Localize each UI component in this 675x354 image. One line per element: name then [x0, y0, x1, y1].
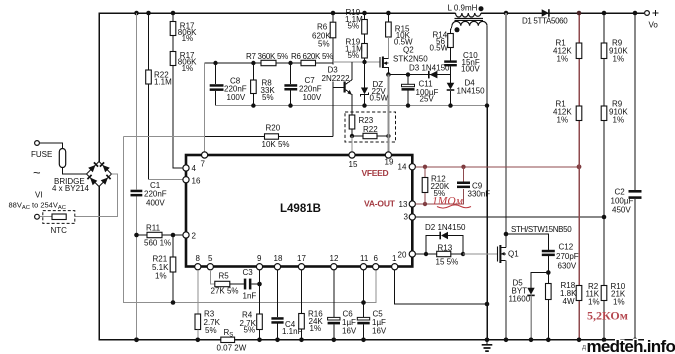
- resistor R21 5.1K 1%: [172, 235, 174, 303]
- svg-text:1%: 1%: [182, 64, 194, 73]
- transistor Q1 STH/STW15NB50: [498, 245, 507, 263]
- svg-text:5%: 5%: [205, 326, 217, 335]
- resistor R5 27K 5%: [215, 281, 230, 286]
- resistor R22 (snubber): [352, 135, 388, 137]
- svg-text:15: 15: [349, 160, 358, 169]
- svg-text:L4981B: L4981B: [280, 203, 321, 215]
- resistor R3 2.7K 5%: [195, 314, 201, 330]
- node rail junctions: [251, 103, 489, 107]
- capacitor C8 220nF 100V: [210, 84, 224, 87]
- svg-text:VA-OUT: VA-OUT: [364, 199, 396, 209]
- svg-text:100µF: 100µF: [611, 197, 634, 206]
- svg-text:1%: 1%: [557, 116, 569, 125]
- wire pin7 lead: [204, 63, 206, 152]
- wire R17 line: [173, 13, 184, 168]
- diode D2 1N4150 loop: [426, 236, 463, 255]
- svg-text:R11: R11: [146, 224, 161, 233]
- svg-text:Vo: Vo: [649, 21, 659, 30]
- transistor D3 2N2222: [333, 62, 352, 106]
- node C11 top: [406, 72, 410, 76]
- wire R15 line: [387, 13, 389, 22]
- wire pin1 to ground line: [395, 270, 487, 304]
- wire pin18 C4 line: [277, 270, 279, 340]
- zener DZ 22V 0.5W: [361, 88, 368, 95]
- svg-text:D3 1N4150: D3 1N4150: [409, 64, 450, 73]
- wire C1 line: [136, 13, 138, 340]
- resistor R6 620K 5% (horizontal): [301, 60, 316, 65]
- svg-text:5%: 5%: [348, 21, 360, 30]
- svg-text:R13: R13: [438, 244, 453, 253]
- resistor R22 1.1M: [146, 70, 152, 84]
- svg-text:400V: 400V: [146, 199, 165, 208]
- svg-text:1%: 1%: [310, 324, 322, 333]
- capacitor C2 100uF 450V: [629, 190, 642, 193]
- svg-text:4 x BY214: 4 x BY214: [52, 184, 89, 193]
- wire C8 branch: [215, 63, 217, 106]
- diode D5 BYT 11600: [531, 273, 548, 288]
- wire R19 zener line x364.5: [364, 13, 366, 106]
- svg-text:R22: R22: [363, 125, 378, 134]
- svg-text:1%: 1%: [613, 54, 625, 63]
- svg-text:270pF: 270pF: [556, 252, 579, 261]
- resistor R7 360K 5%: [261, 60, 276, 65]
- svg-text:0.5W: 0.5W: [430, 44, 449, 53]
- wire R1 R2 red divider x579: [578, 13, 580, 340]
- svg-text:10K 5%: 10K 5%: [262, 140, 290, 149]
- wire pin16 feed: [149, 179, 185, 181]
- svg-text:STH/STW15NB50: STH/STW15NB50: [511, 225, 572, 234]
- svg-text:19: 19: [385, 158, 394, 167]
- svg-text:5%: 5%: [348, 51, 360, 60]
- capacitor C3 1nF: [230, 283, 260, 285]
- svg-text:L 0.9mH: L 0.9mH: [448, 4, 478, 13]
- svg-text:4: 4: [192, 164, 197, 173]
- wire R9 R10 divider x604: [603, 13, 605, 340]
- label D3 2N2222: [321, 65, 350, 83]
- wire bridge right vertex to NTC: [75, 174, 118, 217]
- svg-text:1nF: 1nF: [243, 292, 257, 301]
- wire pin3 line: [415, 216, 604, 218]
- resistor R11 560 1%: [137, 234, 184, 236]
- resistor R9 910K 1% (upper): [601, 43, 607, 59]
- wire signal ground rail y105.6: [216, 105, 488, 107]
- resistor R8 33K 5%: [252, 63, 254, 106]
- svg-text:VI: VI: [35, 191, 43, 200]
- svg-text:17: 17: [297, 254, 306, 263]
- svg-text:D1 5TTA5060: D1 5TTA5060: [522, 17, 568, 26]
- wire pin14 VFEED red line: [415, 166, 579, 168]
- svg-text:FUSE: FUSE: [31, 150, 52, 159]
- svg-text:R6 620K 5%: R6 620K 5%: [291, 52, 333, 61]
- resistor R20 10K 5%: [265, 134, 279, 139]
- svg-text:13: 13: [399, 200, 408, 209]
- svg-text:C12: C12: [559, 243, 574, 252]
- svg-text:5%: 5%: [318, 40, 330, 49]
- transistor Q2 STK2N50: [380, 57, 388, 75]
- wire to fuse: [39, 143, 62, 149]
- pin circles right: [409, 164, 415, 170]
- node D5 R18 junction: [546, 270, 551, 275]
- svg-text:5: 5: [208, 254, 213, 263]
- svg-text:20: 20: [398, 251, 407, 260]
- pin numbers: [192, 158, 409, 264]
- resistor R19 1.1M 5% (lower): [362, 44, 368, 59]
- svg-text:5,2КОм: 5,2КОм: [587, 309, 628, 323]
- resistor R19 1.1M 5% (upper): [362, 20, 368, 35]
- svg-text:R23: R23: [359, 116, 374, 125]
- svg-text:C3: C3: [243, 268, 254, 277]
- wire net A (pins 11/6 return): [124, 137, 377, 303]
- wire C12 branch: [506, 234, 548, 284]
- svg-text:~: ~: [33, 165, 41, 180]
- svg-text:R5: R5: [219, 272, 230, 281]
- svg-text:16V: 16V: [372, 327, 387, 336]
- svg-text:11600: 11600: [509, 295, 531, 304]
- resistor R9 910K 1% (lower): [601, 106, 607, 121]
- node R22 ends: [350, 134, 391, 138]
- svg-text:1%: 1%: [613, 116, 625, 125]
- svg-text:630V: 630V: [558, 262, 577, 271]
- wire pin8 R3 line: [197, 270, 199, 314]
- node red junctions: [423, 164, 582, 206]
- svg-text:100V: 100V: [303, 93, 322, 102]
- svg-text:3: 3: [404, 213, 409, 222]
- capacitor C11 100uF 25V: [407, 75, 409, 106]
- svg-text:2N2222: 2N2222: [322, 74, 351, 83]
- svg-text:6: 6: [374, 254, 379, 263]
- diode D3 1N4150: [428, 71, 430, 79]
- svg-text:450V: 450V: [612, 206, 631, 215]
- capacitor C1 220nF 400V: [131, 190, 143, 193]
- node y63 junctions: [213, 61, 292, 65]
- resistor R10 21K 1%: [601, 286, 607, 301]
- resistor R4 2.7K 5%: [257, 314, 263, 330]
- resistor Rs 0.07 2W (shunt): [221, 337, 235, 342]
- svg-text:11: 11: [360, 254, 369, 263]
- capacitor C6 1uF 16V: [328, 317, 340, 320]
- svg-text:1%: 1%: [613, 298, 625, 307]
- capacitor C10 15nF 100V: [450, 48, 452, 75]
- svg-text:R7 360K 5%: R7 360K 5%: [246, 52, 288, 61]
- svg-text:Q1: Q1: [508, 250, 519, 259]
- wire pin13 red line: [415, 189, 463, 204]
- node gate junction: [362, 60, 366, 64]
- svg-text:5%: 5%: [262, 93, 274, 102]
- resistor R1 412K 1% (upper): [576, 43, 582, 59]
- dashed box R23 R22: [345, 112, 396, 142]
- svg-text:560 1%: 560 1%: [144, 239, 171, 248]
- svg-text:4W: 4W: [563, 297, 575, 306]
- resistor R18 1.8K 4W: [546, 284, 552, 300]
- svg-text:C2: C2: [615, 188, 626, 197]
- node pin3 R9 junction: [602, 215, 607, 220]
- wire pin11 C5 line: [363, 270, 365, 340]
- pin circles left: [183, 165, 189, 171]
- resistor R6 620K 5% (vertical): [330, 22, 336, 38]
- svg-text:7: 7: [201, 160, 206, 169]
- wire C7 branch: [290, 63, 292, 106]
- svg-text:1%: 1%: [588, 298, 600, 307]
- svg-text:5%: 5%: [244, 326, 256, 335]
- resistor R2 11K 1%: [576, 286, 582, 301]
- svg-text:8: 8: [196, 254, 201, 263]
- resistor NTC: [52, 214, 66, 220]
- svg-text:1.1M: 1.1M: [154, 78, 172, 87]
- wire R6v line x333: [332, 13, 334, 137]
- terminal Vo+: [645, 11, 650, 16]
- diode D4 1N4150: [450, 75, 452, 106]
- node Q2 source junction: [386, 72, 391, 77]
- wire Q1 gate lead: [463, 253, 498, 255]
- node C3 pin9 junction: [257, 282, 262, 287]
- node R21 top: [171, 233, 176, 238]
- svg-text:D2 1N4150: D2 1N4150: [425, 223, 466, 232]
- svg-text:27K 5%: 27K 5%: [211, 287, 239, 296]
- svg-text:25V: 25V: [420, 95, 435, 104]
- bridge rectifier 4 x BY214: [87, 162, 112, 187]
- ground: [486, 340, 488, 345]
- capacitor C5 1uF 16V: [357, 317, 369, 320]
- svg-text:330nF: 330nF: [468, 190, 491, 199]
- wire ground line x487: [486, 106, 488, 340]
- wire C2 line x635: [634, 13, 636, 340]
- svg-text:VFEED: VFEED: [362, 168, 389, 178]
- svg-text:0.5W: 0.5W: [370, 94, 389, 103]
- svg-text:220nF: 220nF: [144, 190, 167, 199]
- wire Q2 gate line: [333, 61, 380, 63]
- svg-text:1: 1: [392, 254, 397, 263]
- svg-text:9: 9: [257, 254, 262, 263]
- node bottom rail junctions: [134, 338, 637, 343]
- terminal AC input 1: [35, 141, 40, 146]
- capacitor C4 1.1nF: [271, 317, 283, 320]
- pin circles top: [183, 152, 416, 270]
- svg-text:STK2N50: STK2N50: [393, 54, 428, 63]
- capacitor C12 270pF 630V: [542, 250, 555, 253]
- svg-text:R6: R6: [317, 23, 328, 32]
- node red top: [577, 11, 582, 16]
- resistor R1 412K 1% (lower): [576, 106, 582, 121]
- resistor R13 15 5%: [415, 253, 463, 255]
- wire D3 C11 node: [388, 74, 450, 76]
- terminal AC input 2: [35, 214, 40, 219]
- capacitor C7 220nF 100V: [284, 84, 297, 87]
- capacitor C9 330nF: [463, 167, 465, 182]
- svg-text:д: д: [582, 344, 586, 351]
- wire pin15 pin19 leads: [351, 136, 353, 152]
- wire bottom rail: [99, 187, 644, 340]
- wire pin9 R4 line: [259, 270, 261, 340]
- resistor R17 806K 1% (lower): [170, 52, 176, 66]
- wire fuse to bridge: [63, 168, 87, 175]
- node pin1 gnd junction: [485, 302, 490, 307]
- svg-text:16: 16: [192, 177, 201, 186]
- wire Q1 source line: [505, 261, 507, 340]
- resistor R17 806K 1% (upper): [170, 22, 176, 36]
- resistor R16 24K 1%: [299, 314, 305, 330]
- svg-text:0.07 2W: 0.07 2W: [217, 344, 247, 353]
- node phase dots: [479, 6, 484, 11]
- pin circles bottom: [195, 264, 201, 270]
- svg-text:14: 14: [398, 163, 407, 172]
- wire top rail: [99, 13, 644, 162]
- svg-text:16V: 16V: [342, 327, 357, 336]
- svg-text:1%: 1%: [182, 34, 194, 43]
- resistor R15 10K 0.5W: [386, 22, 392, 37]
- wire pin12 C6 line: [333, 270, 335, 340]
- node top rail junctions: [134, 11, 637, 16]
- wire pin17 R16 line: [301, 270, 303, 340]
- wire R22 line: [148, 13, 150, 180]
- svg-text:1N4150: 1N4150: [457, 87, 486, 96]
- resistor R23: [351, 106, 353, 136]
- wire RC filter line y63: [205, 62, 333, 64]
- svg-text:15 5%: 15 5%: [436, 258, 459, 267]
- svg-text:R20: R20: [266, 124, 281, 133]
- IC U1 L4981B: [186, 155, 412, 267]
- node drain C12 junction: [504, 232, 509, 237]
- svg-text:12: 12: [330, 254, 339, 263]
- svg-text:100V: 100V: [227, 93, 246, 102]
- inductor L 0.9mH (boost + aux winding): [451, 13, 488, 106]
- fuse F1: [59, 149, 65, 168]
- node R13 ends: [424, 252, 465, 256]
- wire R20 line: [124, 136, 205, 138]
- svg-text:Q2: Q2: [403, 45, 414, 54]
- svg-text:NTC: NTC: [51, 226, 68, 235]
- wire terminal to NTC: [39, 216, 52, 218]
- svg-text:2: 2: [192, 232, 197, 241]
- svg-text:18: 18: [274, 254, 283, 263]
- wire pin5 R5 C3: [210, 270, 215, 284]
- node net A junctions: [171, 300, 366, 305]
- resistor R12 220K 5%: [424, 167, 426, 204]
- wire Q1 drain line: [505, 13, 507, 248]
- svg-text:1%: 1%: [155, 272, 167, 281]
- svg-text:100V: 100V: [461, 65, 480, 74]
- svg-text:medteh.info: medteh.info: [587, 337, 675, 354]
- node C1 junctions: [134, 233, 139, 342]
- svg-text:1%: 1%: [557, 54, 569, 63]
- resistor R14 56 0.5W: [448, 34, 454, 48]
- diode D1 5TTA5060: [542, 9, 549, 17]
